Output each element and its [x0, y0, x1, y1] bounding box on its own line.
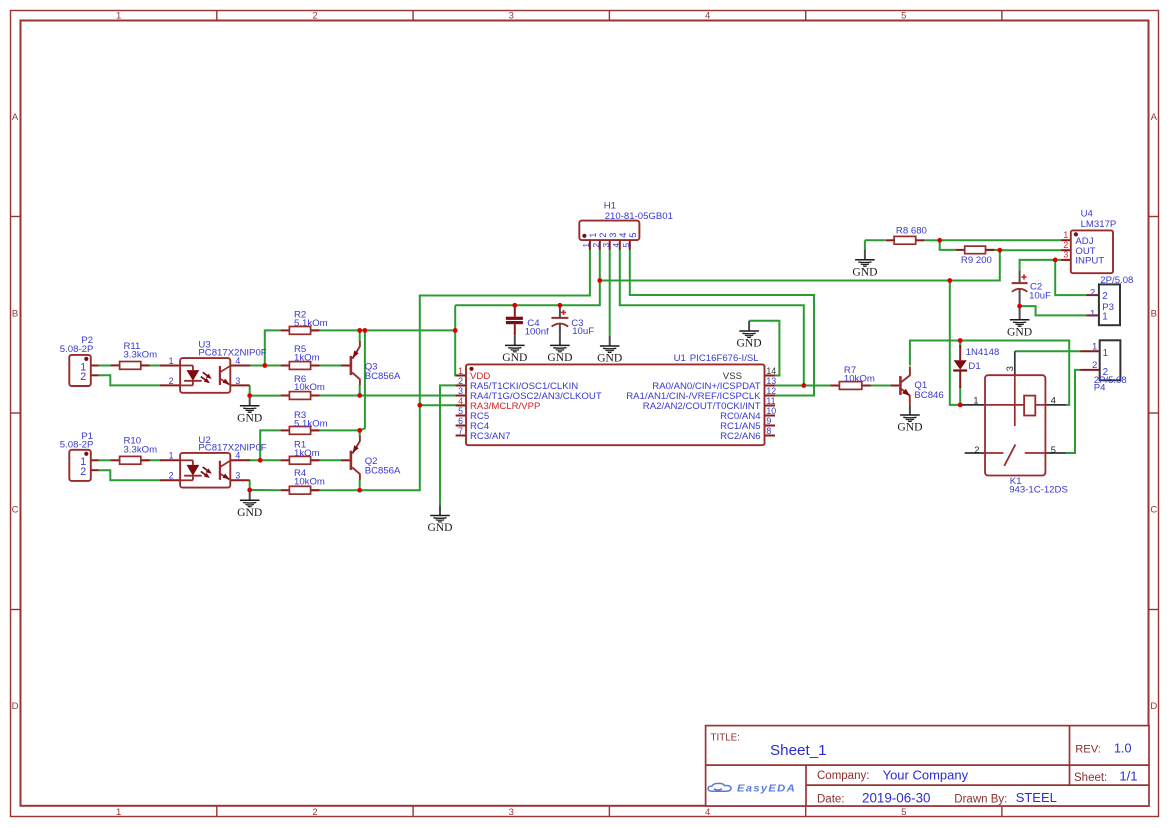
junction MCLR node — [417, 403, 422, 408]
resistor R8 — [885, 236, 924, 244]
svg-text:BC846: BC846 — [914, 390, 943, 401]
svg-text:5.08-2P: 5.08-2P — [60, 439, 94, 450]
resistor R9 — [956, 246, 994, 254]
svg-text:10kOm: 10kOm — [294, 382, 325, 393]
svg-text:1: 1 — [581, 243, 591, 248]
wire P1 pin2 to U2 pin2 — [99, 470, 162, 480]
junction ICSPDAT node — [801, 383, 806, 388]
svg-text:2P/5.08: 2P/5.08 — [1100, 275, 1133, 286]
svg-text:1: 1 — [1103, 348, 1109, 359]
svg-text:PC817X2NIP0F: PC817X2NIP0F — [198, 443, 266, 454]
svg-text:Company:: Company: — [817, 770, 869, 782]
connector P2 — [60, 335, 99, 386]
junction R9 output node — [997, 248, 1002, 253]
svg-text:1: 1 — [116, 11, 121, 22]
wire U3 pin4 to R5 left — [250, 365, 281, 367]
wire U2 pin4 to R1 left — [250, 459, 281, 461]
svg-text:2: 2 — [1092, 360, 1097, 371]
regulator U4 LM317P — [1061, 208, 1117, 273]
svg-text:2: 2 — [458, 376, 463, 386]
transistor Q2 — [341, 436, 401, 480]
capacitor C2 — [1012, 271, 1052, 311]
svg-text:5: 5 — [901, 11, 906, 22]
wire C2 top to U4 INPUT — [1020, 260, 1061, 271]
resistor R2 — [281, 327, 320, 335]
svg-text:210-81-05GB01: 210-81-05GB01 — [605, 211, 673, 222]
svg-text:GND: GND — [597, 352, 622, 365]
svg-text:2: 2 — [591, 243, 601, 248]
wire H1 pin5 to U1 pin12 — [630, 250, 814, 396]
wire ICSPDAT node to U1 pin13 — [775, 385, 804, 387]
ground R8 — [852, 250, 877, 279]
svg-text:5: 5 — [1051, 445, 1056, 455]
wire VDD bus to R9 output node — [600, 250, 1000, 280]
svg-text:STEEL: STEEL — [1016, 790, 1057, 805]
optocoupler U2 — [160, 435, 267, 488]
wire relay pin3 to P4 pin1 — [1015, 350, 1080, 352]
svg-text:GND: GND — [237, 412, 262, 425]
transistor Q3 — [341, 341, 401, 385]
svg-text:GND: GND — [897, 421, 922, 434]
ground RA5 — [427, 505, 452, 534]
wire H1 pin1 to MCLR node — [420, 250, 590, 405]
svg-text:GND: GND — [737, 337, 762, 350]
svg-text:1kOm: 1kOm — [294, 448, 320, 459]
svg-text:B: B — [12, 308, 18, 319]
svg-text:BC856A: BC856A — [365, 466, 401, 477]
svg-text:4: 4 — [1051, 396, 1056, 406]
wire RA4 node to Q3 collector — [359, 385, 361, 396]
svg-text:10uF: 10uF — [572, 326, 594, 337]
wire to Q2 emitter — [359, 430, 361, 436]
wire VDD down to Q2 emitter rail — [360, 330, 365, 430]
svg-text:1: 1 — [973, 396, 978, 406]
junction VDD rail drop — [363, 328, 368, 333]
svg-text:1: 1 — [1092, 341, 1097, 352]
wire U3 pin4 node up to R2 left — [265, 330, 281, 365]
wire down to ground R8 — [864, 240, 866, 249]
junction D1 cathode node — [958, 403, 963, 408]
junction C4 top — [512, 303, 517, 308]
junction D1 anode node — [958, 338, 963, 343]
wire RA4 node to U1 pin3 — [360, 395, 466, 397]
svg-text:A: A — [1151, 112, 1158, 123]
connector P1 — [60, 431, 99, 481]
svg-text:680: 680 — [911, 226, 927, 237]
resistor R7 — [831, 382, 871, 390]
wire U3 pin3 to ground node and R6 left — [250, 385, 281, 395]
wire H1 pin3 to ground — [609, 250, 611, 336]
wire R7 right to Q1 base — [862, 385, 891, 387]
wire relay pin1 node to D1 cathode — [959, 386, 961, 405]
junction RA4 node — [357, 393, 362, 398]
svg-text:1.0: 1.0 — [1114, 741, 1132, 755]
svg-text:3.3kOm: 3.3kOm — [124, 444, 158, 455]
svg-text:2: 2 — [312, 11, 317, 22]
svg-text:3: 3 — [235, 376, 240, 386]
ground under U3 — [237, 396, 262, 425]
svg-text:C: C — [1150, 505, 1157, 516]
wire R8 right to ADJ node — [925, 239, 940, 241]
wire R9 right to output node — [986, 249, 1000, 251]
svg-text:2: 2 — [80, 466, 86, 478]
junction C3 top — [558, 303, 563, 308]
svg-text:3: 3 — [458, 386, 463, 396]
junction INPUT node — [1053, 258, 1058, 263]
svg-text:5.08-2P: 5.08-2P — [60, 344, 94, 355]
junction ADJ node — [937, 238, 942, 243]
wire to Q2 collector lead — [359, 480, 361, 491]
svg-text:6: 6 — [458, 416, 463, 426]
svg-text:BC856A: BC856A — [365, 371, 401, 382]
svg-text:TITLE:: TITLE: — [711, 733, 740, 744]
junction C2 bottom — [1017, 304, 1022, 309]
resistor R3 — [281, 427, 320, 435]
ground H1 pin3 — [597, 336, 622, 365]
capacitor C3 — [551, 305, 594, 337]
resistor R4 — [281, 486, 320, 494]
svg-text:4: 4 — [458, 396, 463, 406]
ground under C4 — [502, 335, 527, 364]
ground under U2 — [237, 490, 262, 519]
connector P4 — [1080, 340, 1127, 393]
wire to U4 OUT pin — [1000, 249, 1061, 251]
svg-text:4: 4 — [611, 243, 621, 248]
ground VSS — [737, 321, 762, 350]
wire VDD to U1 pin1 — [455, 330, 466, 375]
svg-text:1: 1 — [116, 807, 121, 818]
svg-text:10kOm: 10kOm — [294, 476, 325, 487]
svg-text:943-1C-12DS: 943-1C-12DS — [1009, 485, 1068, 496]
svg-text:P4: P4 — [1094, 383, 1106, 394]
header H1 — [579, 201, 673, 250]
svg-text:D: D — [1150, 701, 1157, 712]
svg-text:GND: GND — [427, 521, 452, 534]
title block — [706, 726, 1149, 806]
svg-text:GND: GND — [547, 351, 572, 364]
svg-text:3: 3 — [509, 11, 514, 22]
junction Q2 collector node — [357, 488, 362, 493]
svg-text:1N4148: 1N4148 — [966, 347, 1000, 358]
svg-text:Date:: Date: — [817, 794, 845, 806]
wire U2 pin3 to ground node and R4 left — [250, 480, 281, 490]
svg-text:U4: U4 — [1081, 208, 1094, 219]
svg-text:3: 3 — [601, 243, 611, 248]
wire H1 pin4 to ICSPDAT node — [620, 250, 804, 386]
svg-text:EasyEDA: EasyEDA — [737, 783, 796, 795]
wire C2 bottom to P3 pin1 — [1020, 306, 1087, 315]
svg-text:13: 13 — [766, 376, 776, 386]
junction U2 pin3 gnd node — [247, 488, 252, 493]
wire P1 pin1 to R10 — [99, 459, 112, 461]
optocoupler U3 — [160, 340, 267, 393]
svg-text:3: 3 — [1005, 366, 1015, 371]
wire ADJ node to R9 left — [940, 240, 956, 250]
svg-text:14: 14 — [766, 366, 776, 376]
wire MCLR node down to Q2 collector — [360, 405, 420, 490]
resistor R5 — [281, 362, 320, 370]
svg-text:U1: U1 — [674, 353, 686, 364]
ground under C2 — [1007, 310, 1032, 339]
svg-text:1kOm: 1kOm — [294, 353, 320, 364]
svg-text:1: 1 — [1102, 312, 1108, 323]
svg-text:12: 12 — [766, 386, 776, 396]
svg-text:GND: GND — [852, 265, 877, 278]
svg-text:5.1kOm: 5.1kOm — [294, 418, 328, 429]
svg-text:GND: GND — [1007, 326, 1032, 339]
wire relay pin5 to P4 pin2 — [1066, 370, 1080, 453]
svg-text:1: 1 — [458, 366, 463, 376]
svg-text:3: 3 — [509, 807, 514, 818]
svg-text:LM317P: LM317P — [1081, 219, 1117, 230]
svg-text:2: 2 — [80, 371, 86, 383]
svg-text:C: C — [12, 505, 19, 516]
svg-text:Drawn By:: Drawn By: — [954, 794, 1007, 806]
wire Q1 collector to relay pin4 — [910, 341, 1069, 405]
junction VDD rail right — [453, 328, 458, 333]
svg-text:Sheet:: Sheet: — [1074, 772, 1107, 784]
svg-text:1: 1 — [1063, 230, 1068, 240]
svg-text:1: 1 — [169, 451, 174, 461]
wire R6 right to RA4 node — [311, 395, 360, 397]
resistor R11 — [111, 362, 150, 370]
svg-text:1: 1 — [169, 356, 174, 366]
svg-text:INPUT: INPUT — [1075, 256, 1104, 267]
IC U1 PIC16F676 — [456, 353, 777, 445]
svg-text:3: 3 — [1063, 250, 1068, 260]
svg-text:2: 2 — [169, 471, 174, 481]
junction U3 pin4 node — [262, 363, 267, 368]
svg-text:1/1: 1/1 — [1119, 769, 1137, 784]
relay K1 — [961, 351, 1068, 495]
svg-text:11: 11 — [766, 396, 775, 406]
svg-text:200: 200 — [976, 255, 992, 266]
svg-text:3.3kOm: 3.3kOm — [124, 349, 158, 360]
wire ICSPDAT node to R7 left — [804, 385, 831, 387]
svg-text:D1: D1 — [968, 361, 980, 372]
svg-text:2: 2 — [1063, 240, 1068, 250]
svg-text:GND: GND — [502, 351, 527, 364]
svg-text:REV:: REV: — [1075, 744, 1101, 756]
wire VDD to Q3 emitter — [359, 330, 361, 342]
wire U1 pin14 VSS to ground — [749, 321, 779, 376]
wire to D1 anode — [959, 341, 961, 349]
wire P2 pin1 to R11 — [99, 365, 112, 367]
junction U3 pin3 gnd node — [247, 393, 252, 398]
connector P3 — [1086, 275, 1133, 325]
svg-text:2: 2 — [169, 376, 174, 386]
wire R1 right to Q2 base — [311, 459, 341, 461]
svg-text:Your Company: Your Company — [883, 767, 969, 782]
junction Q3 emitter rail — [357, 328, 362, 333]
svg-text:RC3/AN7: RC3/AN7 — [470, 431, 511, 442]
svg-text:P3: P3 — [1102, 302, 1114, 313]
svg-text:7: 7 — [458, 426, 463, 436]
wire P2 pin2 to U3 pin2 — [99, 375, 162, 385]
resistor R10 — [111, 456, 150, 464]
resistor R1 — [281, 456, 320, 464]
svg-text:GND: GND — [237, 506, 262, 519]
capacitor C4 — [506, 305, 549, 337]
svg-text:B: B — [1151, 308, 1157, 319]
svg-text:9: 9 — [766, 416, 771, 426]
svg-text:100nf: 100nf — [525, 326, 549, 337]
svg-text:5: 5 — [901, 807, 906, 818]
resistor R6 — [281, 392, 320, 400]
wire U2 pin4 node up to R3 left — [260, 430, 280, 460]
svg-text:RC2/AN6: RC2/AN6 — [720, 431, 761, 442]
svg-text:2: 2 — [1090, 288, 1095, 299]
diode D1 — [953, 345, 999, 388]
svg-text:4: 4 — [705, 11, 710, 22]
wire VDD rail to R2 — [311, 329, 455, 331]
svg-text:2019-06-30: 2019-06-30 — [862, 790, 931, 805]
wire supply down to relay pin1 — [950, 281, 964, 405]
svg-text:2: 2 — [312, 807, 317, 818]
svg-text:R9: R9 — [961, 255, 973, 266]
svg-text:2: 2 — [1102, 291, 1108, 302]
wire GND to R8 left — [865, 239, 885, 241]
wire VDD to decoupling caps — [455, 281, 600, 306]
wire R10 right to U2 pin1 — [141, 459, 161, 461]
wire R5 right to Q3 base — [311, 365, 341, 367]
wire VDD drop to left rail — [454, 305, 456, 330]
svg-text:3: 3 — [235, 471, 240, 481]
wire ADJ node to U4 ADJ pin — [940, 239, 1061, 241]
junction VDD at H1 pin2 — [597, 278, 602, 283]
junction Q2 emitter rail — [357, 428, 362, 433]
wire to R4 right — [311, 489, 360, 491]
svg-text:D: D — [12, 701, 19, 712]
svg-text:A: A — [12, 112, 19, 123]
svg-text:8: 8 — [766, 426, 771, 436]
wire INPUT node to P3 pin2 — [1055, 260, 1086, 295]
svg-text:Sheet_1: Sheet_1 — [770, 742, 827, 759]
svg-text:10: 10 — [766, 406, 776, 416]
svg-text:5: 5 — [627, 233, 638, 238]
svg-text:10kOm: 10kOm — [844, 373, 875, 384]
wire R11 right to U3 pin1 — [141, 365, 161, 367]
svg-text:R8: R8 — [896, 225, 908, 236]
wire H1 pin2 to VDD node — [599, 250, 601, 281]
svg-text:10uF: 10uF — [1029, 291, 1051, 302]
svg-text:4: 4 — [705, 807, 710, 818]
svg-text:5: 5 — [621, 243, 631, 248]
wire to R3 right — [311, 429, 360, 431]
svg-text:1: 1 — [1090, 309, 1095, 320]
svg-text:2: 2 — [974, 445, 979, 455]
svg-text:PIC16F676-I/SL: PIC16F676-I/SL — [690, 353, 759, 364]
svg-text:5: 5 — [458, 406, 463, 416]
junction U2 pin4 node — [258, 458, 263, 463]
svg-text:PC817X2NIP0F: PC817X2NIP0F — [198, 347, 266, 358]
wire U1 pin2 to ground — [440, 385, 466, 505]
ground under C3 — [547, 335, 572, 364]
wire MCLR node to U1 pin4 — [420, 404, 466, 406]
svg-text:5.1kOm: 5.1kOm — [294, 318, 328, 329]
transistor Q1 — [891, 367, 944, 405]
ground Q1 emitter — [897, 405, 922, 434]
junction supply to relay — [947, 278, 952, 283]
